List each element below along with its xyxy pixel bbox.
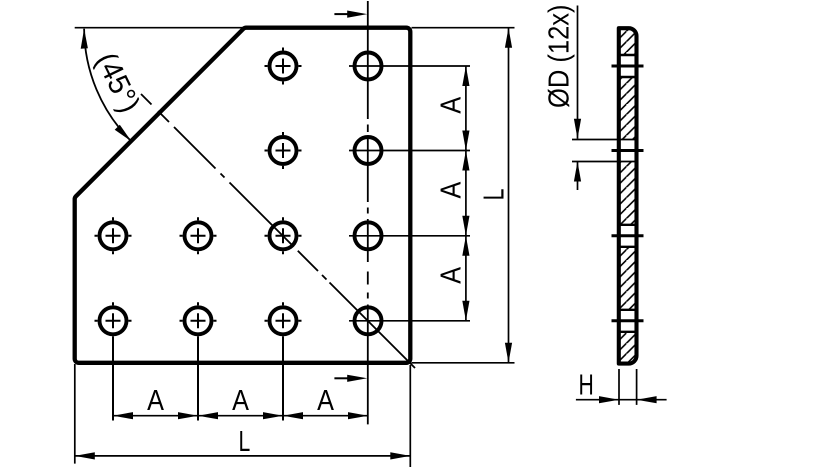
- hole R3C4: [355, 222, 382, 249]
- H extension lines: [618, 369, 620, 405]
- arrow bottom A dim at col2 (left): [198, 412, 218, 419]
- angle arrow bottom: [115, 125, 132, 142]
- hole R4C1: [100, 307, 127, 334]
- hole R4C3: [270, 307, 297, 334]
- angle arrow top: [81, 29, 88, 49]
- hole R1C3: [270, 53, 297, 80]
- ext bottom-right for L: [412, 362, 515, 364]
- arrow bottom A dim at col2 (right): [178, 412, 198, 419]
- diagonal dash-dot center line: [141, 94, 415, 368]
- side view outline stroke: [619, 28, 637, 363]
- section line through col4: [367, 1, 369, 424]
- hole R4C2: [185, 307, 212, 334]
- H dim line: [576, 399, 667, 401]
- hole wall lines row1: [619, 54, 637, 56]
- arrow bottom L dim left: [75, 452, 95, 459]
- arrow right A dim at row3 (up): [462, 236, 469, 256]
- hole gap row3: [615, 225, 640, 247]
- hole R3C2: [185, 222, 212, 249]
- ext row3: [349, 235, 470, 237]
- hole wall lines row2 (ØD extension): [572, 139, 635, 141]
- arrow bottom A dim at col3 (right): [263, 412, 283, 419]
- svg-text:H: H: [578, 370, 593, 402]
- arrow ØD lower (up): [574, 162, 581, 182]
- svg-text:L: L: [239, 426, 251, 458]
- svg-text:A: A: [232, 385, 249, 417]
- ext row1: [349, 65, 470, 67]
- ext row4: [349, 320, 470, 322]
- right A dim line: [465, 66, 467, 321]
- col ext lines below plate (tick + gap through hole + extension): [112, 302, 114, 420]
- arrow right A dim at row2 (down): [462, 131, 469, 151]
- arrow H dim left: [599, 396, 619, 403]
- cross R3C1: [95, 217, 132, 254]
- extension line: top edge extended left (angle dim): [75, 27, 246, 29]
- hole gap row1: [615, 55, 640, 77]
- svg-text:A: A: [436, 181, 468, 198]
- cross R4C3 horizontal: [265, 320, 302, 322]
- arrow bottom A dim right end: [348, 412, 368, 419]
- ext top-right for L: [412, 27, 515, 29]
- plate outline front view: [75, 28, 411, 363]
- svg-text:A: A: [436, 266, 468, 283]
- side view plate fill: [619, 28, 637, 363]
- hole gap row2: [615, 140, 640, 162]
- arrow bottom L dim right: [390, 452, 410, 459]
- row extension lines to right A dims: [75, 28, 515, 467]
- arrow right A dim at row3 (down): [462, 216, 469, 236]
- section arrow head bottom: [347, 375, 367, 382]
- arrow right A dim bottom (down): [462, 301, 469, 321]
- hole gap row4: [615, 310, 640, 332]
- section arrow bottom: [334, 377, 350, 379]
- bottom A dim line: [113, 415, 368, 417]
- hatching: [614, 26, 640, 366]
- arrow right A dim at row2 (up): [462, 151, 469, 171]
- svg-text:ØD (12x): ØD (12x): [544, 4, 576, 108]
- center mark row4: [612, 319, 644, 322]
- hole wall lines row4: [619, 309, 637, 311]
- arrow right L dim top: [505, 28, 512, 48]
- svg-text:A: A: [436, 96, 468, 113]
- bottom L dim line: [75, 455, 411, 457]
- arrow bottom A dim at col3 (left): [283, 412, 303, 419]
- right ext below plate: [409, 365, 411, 467]
- cross R3C2: [180, 217, 217, 254]
- svg-text:L: L: [478, 189, 510, 201]
- center mark row1: [612, 65, 644, 68]
- center mark row2: [612, 149, 644, 152]
- ext row2: [349, 150, 470, 152]
- section arrow head top: [347, 11, 367, 18]
- left ext below plate: [74, 364, 76, 464]
- hole wall lines row3: [619, 224, 637, 226]
- svg-text:A: A: [147, 385, 164, 417]
- ØD leader line: [577, 6, 579, 139]
- arrow right L dim bottom: [505, 343, 512, 363]
- right L dim line: [508, 28, 510, 363]
- ØD lower arrow: [577, 162, 579, 191]
- hole R3C3: [270, 222, 297, 249]
- hole R1C4: [355, 53, 382, 80]
- section arrow top: [334, 13, 350, 15]
- centermark crosses: [95, 48, 302, 321]
- arrow H dim right: [637, 396, 657, 403]
- hole R4C4: [355, 307, 382, 334]
- arrow ØD leader (down): [574, 119, 581, 139]
- hole R2C3: [270, 137, 297, 164]
- cross R1C3: [265, 48, 302, 85]
- svg-text:A: A: [317, 385, 334, 417]
- center mark row3: [612, 234, 644, 237]
- angle arc (45 deg dimension): [84, 29, 131, 141]
- cross R4C1 horizontal: [95, 320, 132, 322]
- cross R3C3: [265, 217, 302, 254]
- cross R4C2 horizontal: [180, 320, 217, 322]
- arrow bottom A dim left end: [113, 412, 133, 419]
- cross R2C3: [265, 132, 302, 169]
- hole R3C1: [100, 222, 127, 249]
- arrow right A dim top (up): [462, 66, 469, 86]
- hole R2C4: [355, 137, 382, 164]
